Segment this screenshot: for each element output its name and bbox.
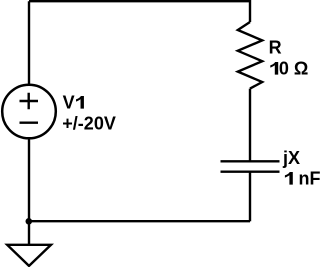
ground — [7, 245, 51, 266]
voltage source V1 — [2, 85, 56, 139]
svg-text:R: R — [269, 38, 282, 58]
capacitor jX bottom plate — [221, 170, 280, 172]
svg-text:+/-20V: +/-20V — [62, 114, 116, 134]
wire: capacitor to bottom rail — [249, 172, 251, 222]
svg-text:nF: nF — [299, 169, 320, 189]
svg-text:jX: jX — [282, 148, 300, 168]
V1 plus sign — [20, 93, 39, 110]
V1 minus sign — [20, 121, 39, 123]
wire: V1 top lead — [28, 1, 30, 85]
capacitor jX top plate — [221, 160, 280, 162]
wire: V1 bottom lead to ground node — [28, 138, 30, 244]
value 10 &#937; — [270, 62, 278, 75]
svg-text:V: V — [63, 93, 75, 113]
resistor R — [238, 22, 262, 89]
value 1 nF — [285, 172, 293, 185]
junction node — [26, 218, 33, 225]
wire: bottom horizontal rail — [29, 220, 250, 222]
svg-text:0 Ω: 0 Ω — [279, 59, 308, 79]
wire: top horizontal from V1 to R — [29, 1, 250, 22]
wire: resistor to capacitor — [249, 89, 251, 162]
